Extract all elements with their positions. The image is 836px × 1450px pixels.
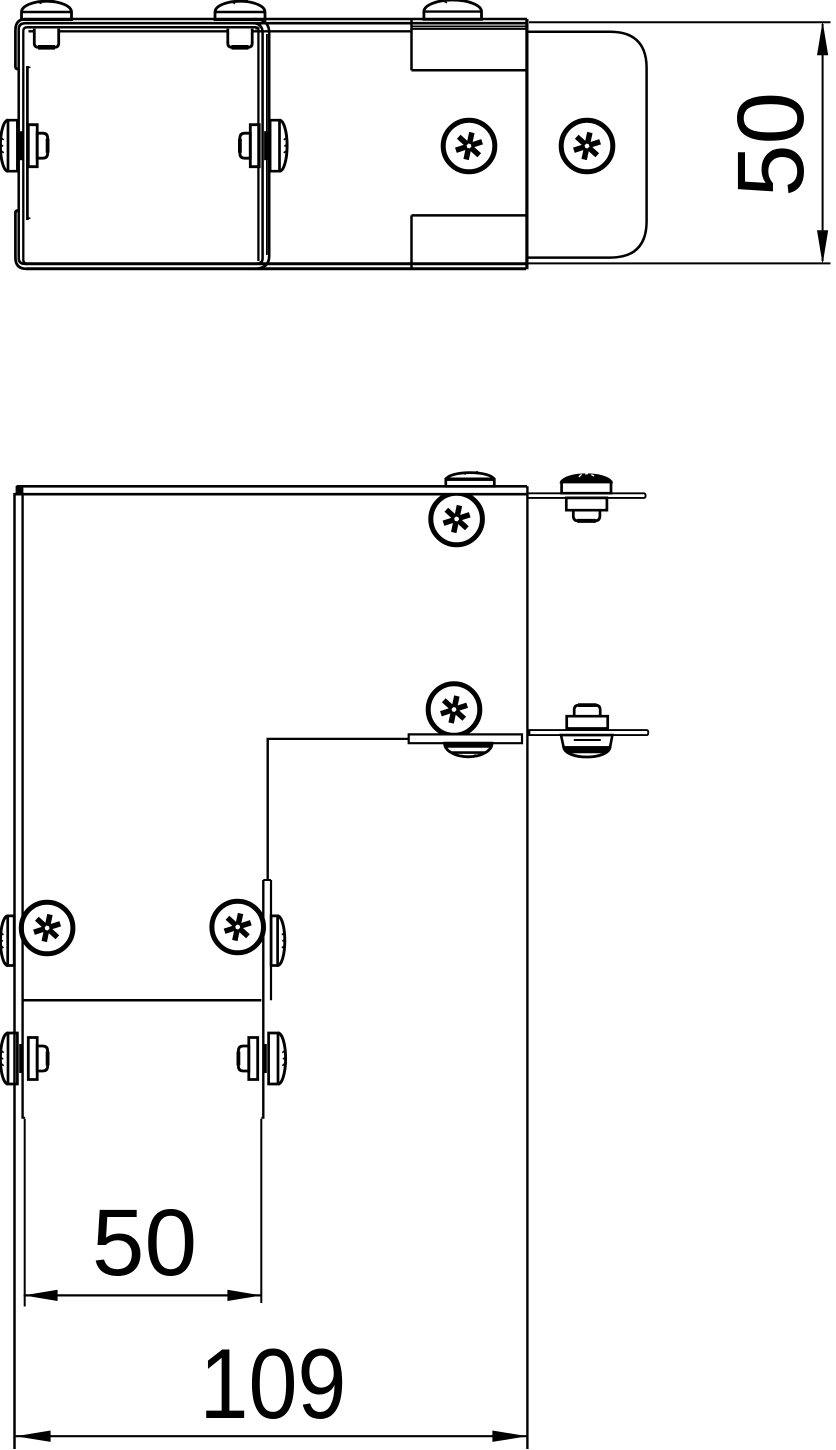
cover right outer wall with corners bbox=[254, 19, 269, 269]
row2 right washer strip bbox=[529, 730, 648, 735]
plan left outer edge bbox=[13, 493, 16, 1449]
dimension line 50 (right side) bbox=[822, 24, 824, 261]
lower tab left edge bbox=[410, 215, 413, 268]
arrowhead left bbox=[16, 1431, 51, 1442]
jog cap left bbox=[23, 1117, 26, 1119]
row1 flap strip edge-on bbox=[527, 493, 645, 498]
flap screw circle 1 bbox=[443, 120, 495, 172]
nub at flange end bottom bbox=[27, 217, 30, 219]
row3 screw circle left bbox=[21, 902, 73, 954]
flap screw circle 2 bbox=[561, 120, 613, 172]
arrowhead left bbox=[24, 1290, 58, 1301]
cover left wall line 2 bbox=[19, 23, 25, 264]
row2 right screw washer + dome bbox=[561, 735, 612, 757]
row2 inner horizontal line bbox=[267, 738, 410, 740]
lower arm right wall strip cap bbox=[263, 879, 271, 881]
plan top-left corner joint bbox=[16, 486, 24, 495]
arrowhead down bbox=[817, 230, 828, 264]
lower arm cover bottom line bbox=[23, 999, 262, 1002]
channel bottom line 2 (outer) bbox=[26, 267, 526, 270]
svg-text:50: 50 bbox=[718, 92, 824, 197]
row1 screw above edge bbox=[446, 471, 495, 486]
arrowhead right bbox=[492, 1431, 527, 1442]
svg-text:109: 109 bbox=[200, 1328, 347, 1439]
lower arm right wall inner line bbox=[262, 880, 264, 1119]
top screw 2 bbox=[215, 0, 265, 47]
cover left flange lower segment bbox=[15, 211, 26, 269]
plan top edge outer line bbox=[17, 485, 528, 488]
side screw right bbox=[240, 120, 287, 171]
lid line behind bbox=[29, 30, 412, 32]
cover right wall inner line bbox=[256, 27, 258, 261]
plan right edge bbox=[526, 486, 528, 1449]
top extension line to dimension bbox=[529, 21, 831, 23]
lower tab top edge bbox=[412, 214, 527, 217]
row3 side screw head left bbox=[0, 916, 14, 966]
upper tab bottom edge bbox=[412, 69, 527, 72]
row2 inner corner vertical edge bbox=[267, 740, 269, 881]
plan left inner edge bbox=[21, 494, 23, 1118]
row2 screw circle bbox=[428, 684, 480, 736]
plan top edge inner line bbox=[14, 493, 527, 496]
row3 side screw head right bbox=[271, 916, 285, 966]
cover left wall line 4 bbox=[26, 66, 29, 220]
flap hinge vertical thick line bbox=[525, 19, 528, 269]
arrowhead up bbox=[817, 21, 828, 55]
cover right wall line 3 bbox=[266, 34, 268, 255]
bottom extension line to dimension bbox=[526, 262, 831, 264]
row2 screw dome below strip bbox=[445, 743, 492, 757]
nub at flange end top bbox=[27, 66, 30, 68]
tab region extra line 1 bbox=[412, 25, 526, 27]
row1 right washer screw (up) bbox=[562, 474, 611, 521]
tab region extra line 2 bbox=[412, 28, 526, 30]
right extension segment below jog bbox=[260, 1119, 262, 1303]
cover top inner line bbox=[27, 26, 257, 29]
dimension 109 line bbox=[16, 1435, 528, 1437]
dimension 50 (bottom) line bbox=[24, 1294, 262, 1296]
channel top line 2 bbox=[25, 22, 526, 25]
cover outer top-left corner + left flange upper segment bbox=[15, 19, 26, 69]
top screw 3 bbox=[424, 0, 482, 19]
top screw 1 bbox=[22, 0, 72, 47]
plan top edge strip bbox=[14, 488, 527, 494]
channel top line 1 (outer) bbox=[26, 18, 527, 21]
row2 right washer screw (down): thread tab bbox=[567, 705, 608, 728]
plan left extension segment bbox=[24, 1119, 26, 1307]
row4 side screw left bbox=[0, 1033, 47, 1084]
row4 side screw right bbox=[238, 1033, 285, 1084]
jog cap right bbox=[261, 1117, 264, 1119]
svg-text:50: 50 bbox=[92, 1190, 197, 1296]
row2 wall strip bbox=[409, 734, 522, 743]
row1 screw circle bbox=[431, 493, 483, 545]
lower arm right wall outer line bbox=[270, 880, 272, 1000]
channel bottom line 1 (inner) bbox=[25, 262, 527, 265]
side screw left bbox=[0, 120, 47, 171]
cover right wall line 2 bbox=[253, 23, 263, 264]
flap rounded outline bbox=[529, 32, 647, 258]
upper tab left edge bbox=[410, 20, 413, 70]
cover left wall line 3 bbox=[23, 27, 27, 263]
row3 screw circle right bbox=[212, 901, 264, 953]
arrowhead right bbox=[227, 1290, 261, 1301]
